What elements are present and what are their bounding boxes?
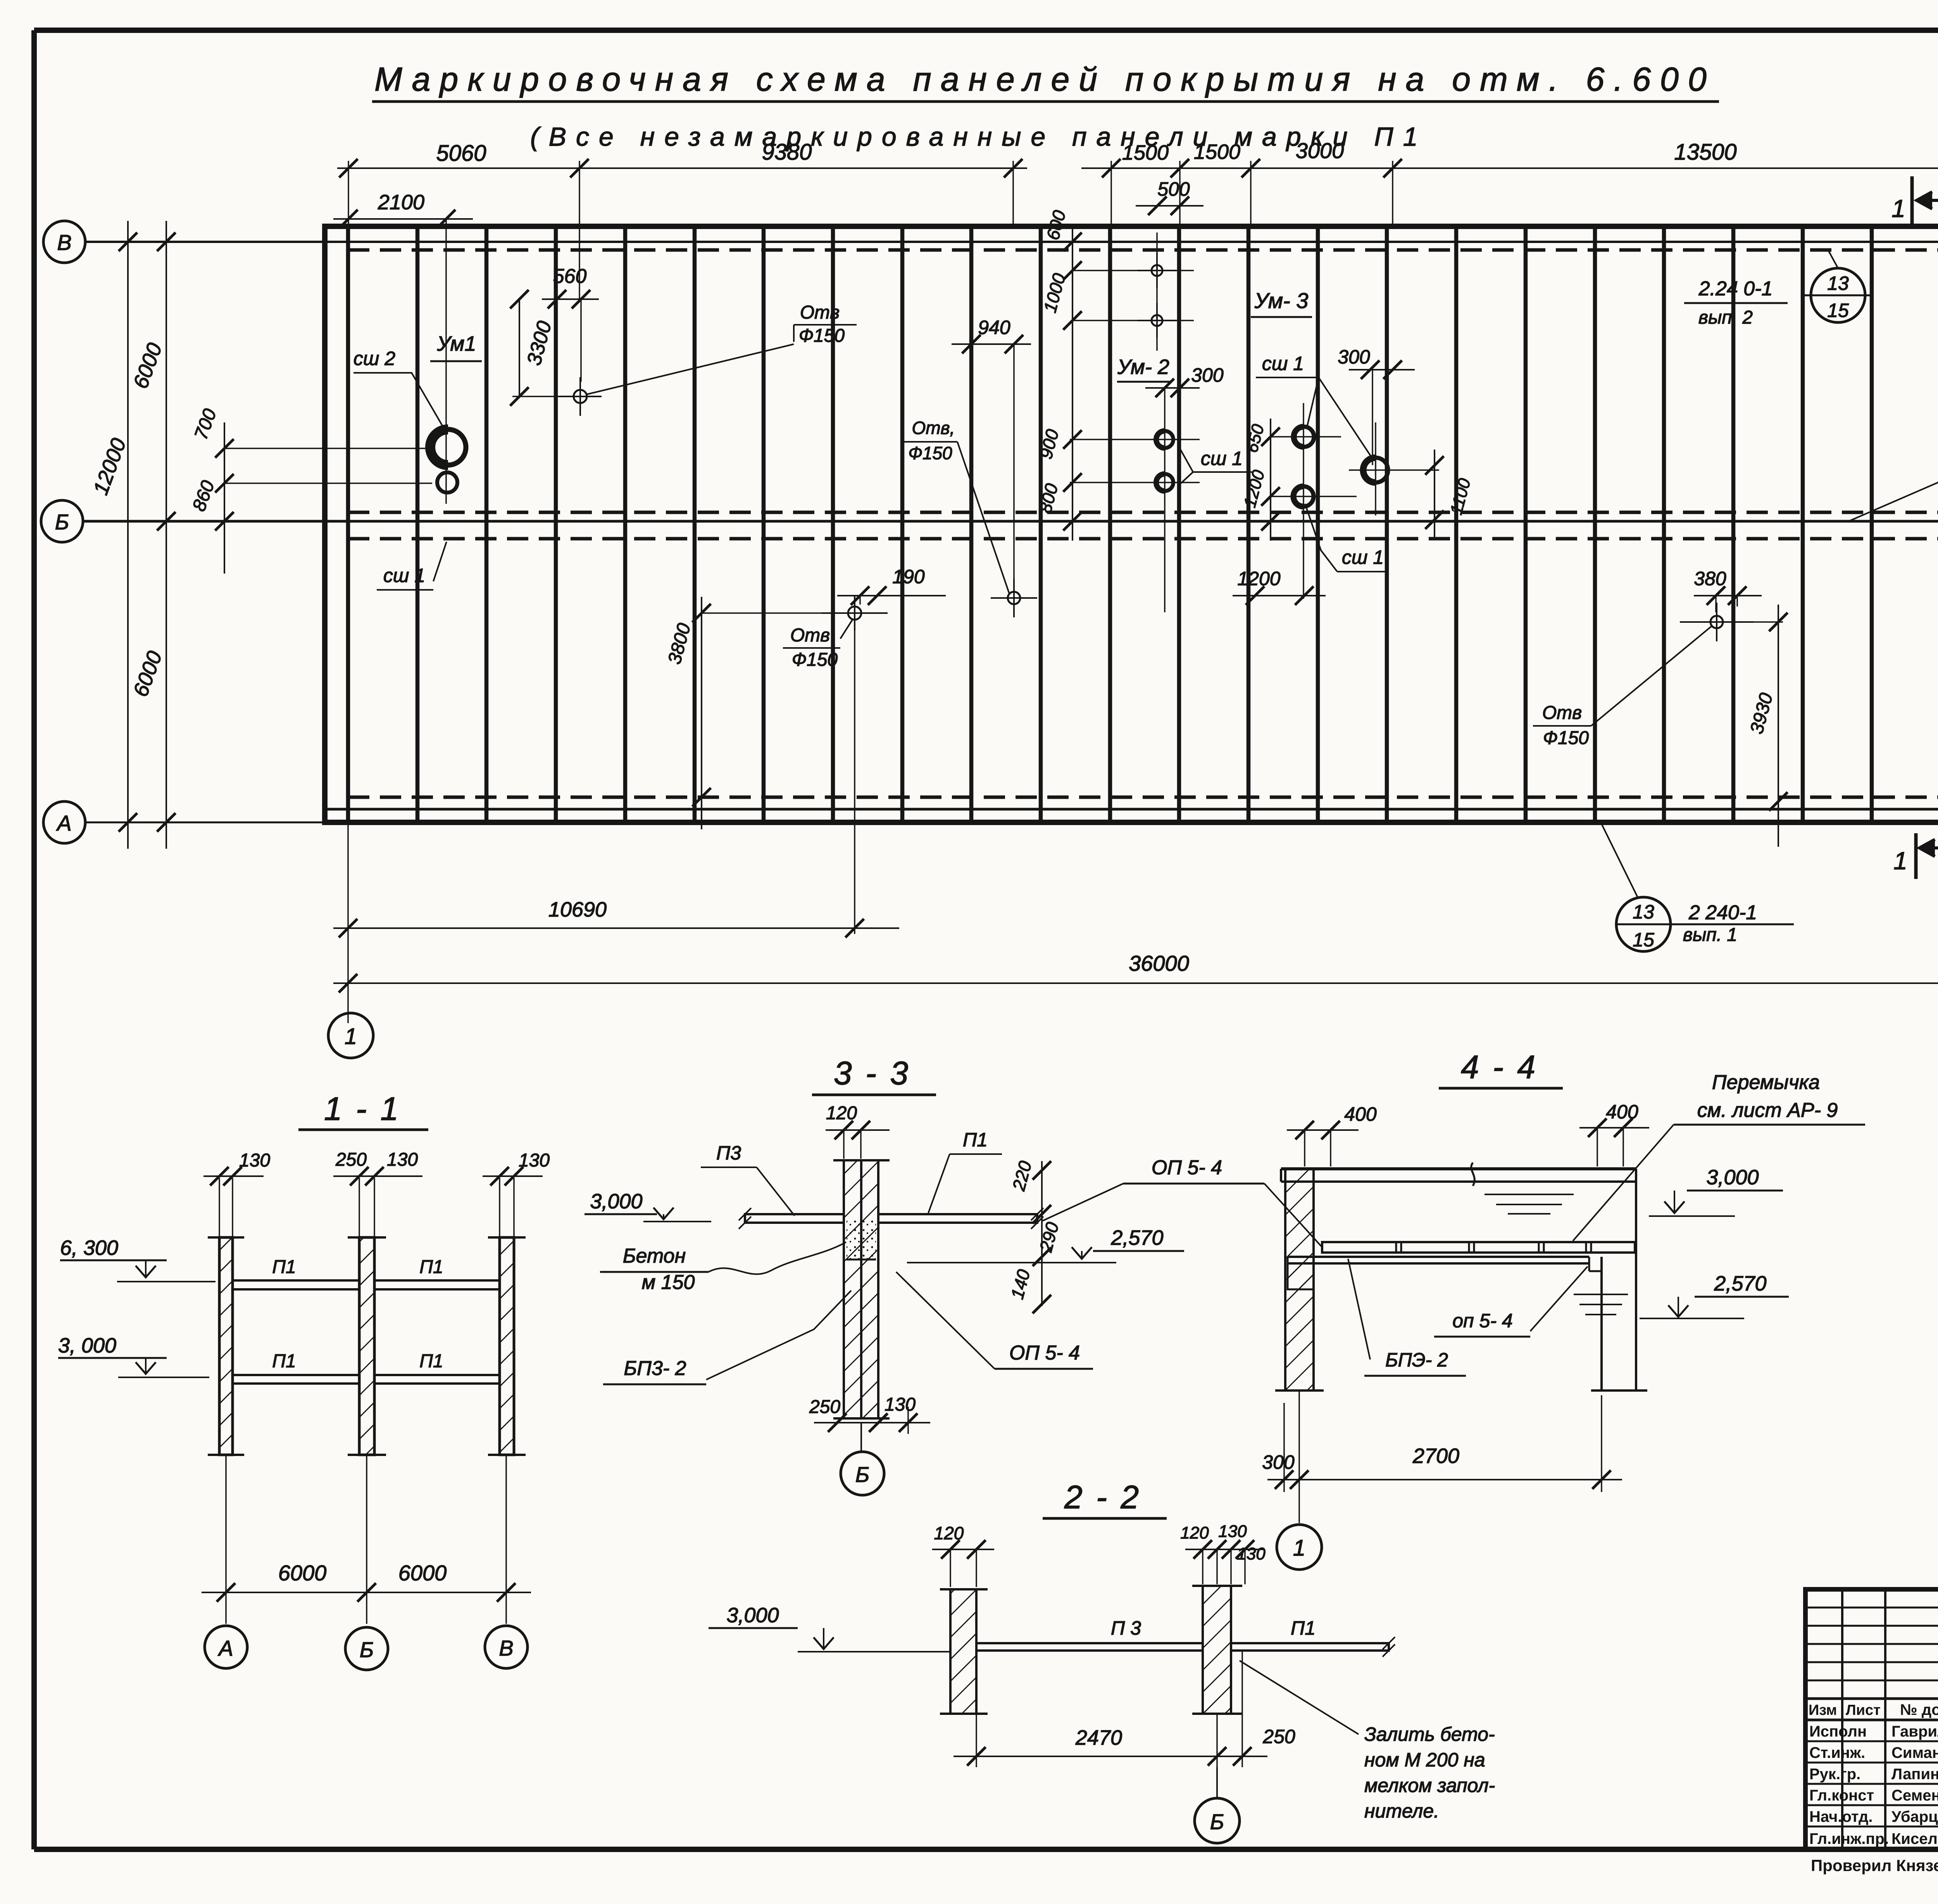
svg-text:БПЭ- 2: БПЭ- 2 — [1385, 1349, 1448, 1371]
dim 3930 vertical — [1778, 605, 1779, 847]
svg-text:400: 400 — [1606, 1101, 1638, 1123]
water lines in right wall — [1574, 1294, 1628, 1295]
section 3-3 dim 120 — [826, 1129, 890, 1131]
section 1-1 wall V hatched — [500, 1237, 514, 1455]
svg-text:1: 1 — [1891, 195, 1905, 222]
dim 190 — [837, 595, 946, 596]
svg-text:Гл.инж.пр.: Гл.инж.пр. — [1809, 1830, 1889, 1847]
svg-text:Ф150: Ф150 — [792, 650, 838, 670]
svg-text:6, 300: 6, 300 — [60, 1236, 118, 1260]
svg-text:(Все незамаркированные панел: (Все незамаркированные панели марки П1 — [530, 122, 1428, 152]
svg-text:130: 130 — [1237, 1544, 1266, 1563]
section 3-3 bottom dims 250/130 — [814, 1422, 930, 1423]
dim 10690 below plan — [347, 822, 349, 1023]
svg-text:2,570: 2,570 — [1714, 1272, 1766, 1295]
dim 1200 bottom — [1233, 595, 1326, 596]
svg-text:5060: 5060 — [436, 141, 486, 166]
section 3-3 right slab P1 — [878, 1214, 1037, 1223]
witness through hole — [512, 396, 599, 397]
section 2-2 dim 120 left — [932, 1549, 994, 1550]
svg-text:560: 560 — [553, 265, 587, 288]
svg-text:2,570: 2,570 — [1110, 1226, 1163, 1249]
dim 560 — [542, 298, 599, 300]
svg-text:Семенов: Семенов — [1891, 1787, 1938, 1804]
svg-text:4 - 4: 4 - 4 — [1461, 1049, 1538, 1085]
svg-text:Киселева: Киселева — [1891, 1830, 1938, 1847]
witness for 2100 / centreline Um1 — [445, 219, 447, 504]
svg-text:2100: 2100 — [378, 191, 424, 214]
svg-text:13500: 13500 — [1674, 140, 1736, 165]
section 3-3 wall of axis B hatched — [844, 1160, 861, 1418]
svg-text:Гл.конст: Гл.конст — [1809, 1787, 1874, 1804]
section 1-1 top slabs P1 — [233, 1280, 359, 1289]
svg-text:Б: Б — [1210, 1809, 1224, 1834]
svg-text:Лист: Лист — [1846, 1702, 1881, 1718]
svg-text:250: 250 — [1262, 1726, 1295, 1747]
node circle 13/15 bottom with label 2 240-1 vyp.1 — [1616, 897, 1671, 951]
axis line А horizontal (bottom edge extension) — [86, 822, 325, 824]
svg-text:500: 500 — [1157, 178, 1190, 200]
svg-text:3,000: 3,000 — [1706, 1166, 1759, 1189]
svg-text:П1: П1 — [963, 1129, 988, 1151]
Um-2 cluster: dim chain 600/1000/900/800 — [1072, 229, 1073, 541]
svg-text:1: 1 — [1293, 1535, 1305, 1561]
svg-text:380: 380 — [1694, 568, 1726, 589]
svg-text:130: 130 — [239, 1150, 270, 1171]
svg-text:А: А — [217, 1636, 233, 1660]
dim 36000 below plan — [333, 982, 1938, 984]
svg-text:120: 120 — [1180, 1523, 1209, 1542]
dashed rib line below axis Б — [348, 537, 1938, 541]
sheet frame — [34, 28, 1938, 33]
svg-text:Б: Б — [55, 510, 69, 534]
section 1-1 lower slabs P1 — [233, 1375, 359, 1384]
svg-text:300: 300 — [1191, 364, 1224, 386]
svg-text:П1: П1 — [1291, 1617, 1316, 1639]
water lines in beam right — [1485, 1194, 1574, 1195]
svg-text:Бетон: Бетон — [623, 1245, 686, 1267]
section 1-1 wall dim witnesses and dims 130/250/130 — [219, 1178, 220, 1236]
svg-text:Ум- 3: Ум- 3 — [1254, 288, 1309, 313]
svg-text:1500: 1500 — [1122, 141, 1169, 164]
svg-text:190: 190 — [892, 566, 925, 588]
section 4-4 BPE-2 slab — [1288, 1256, 1589, 1258]
svg-text:3,000: 3,000 — [590, 1190, 642, 1213]
dim 300 of UM-3 — [1349, 369, 1415, 370]
svg-text:П1: П1 — [272, 1257, 296, 1277]
svg-text:6000: 6000 — [278, 1561, 327, 1585]
svg-text:Нач.отд.: Нач.отд. — [1809, 1808, 1872, 1825]
svg-text:120: 120 — [826, 1103, 857, 1123]
svg-text:Симановская: Симановская — [1891, 1744, 1938, 1761]
left op5-4 notch — [1288, 1263, 1314, 1289]
svg-text:120: 120 — [934, 1523, 964, 1543]
svg-text:Отв,: Отв, — [912, 418, 955, 438]
dim 380 — [1694, 595, 1762, 596]
svg-text:Ст.инж.: Ст.инж. — [1809, 1744, 1865, 1761]
svg-text:сш 1: сш 1 — [383, 565, 425, 586]
title block signature-table verticals — [1841, 1589, 1843, 1849]
dim 650/1200 vertical — [1270, 419, 1271, 541]
svg-text:П3: П3 — [716, 1142, 741, 1164]
svg-text:13: 13 — [1827, 272, 1849, 294]
svg-text:1: 1 — [1893, 847, 1907, 875]
left dim line 12000 — [127, 221, 129, 849]
witness line y=1157 to hole — [224, 448, 434, 449]
svg-text:Исполн: Исполн — [1809, 1723, 1867, 1740]
panel joint lines — [346, 226, 350, 822]
section 3-3 left slab P3 — [745, 1214, 844, 1223]
axis circle А — [43, 801, 85, 843]
section 1-1 bottom dims 6000/6000 — [225, 1455, 227, 1624]
svg-text:А: А — [56, 811, 71, 835]
axis circle 1 bottom — [328, 1013, 373, 1058]
dim 3800 vertical — [701, 597, 702, 829]
witness line y=1247 to hole — [224, 482, 432, 484]
svg-text:Ум1: Ум1 — [437, 332, 476, 355]
svg-text:2 - 2: 2 - 2 — [1064, 1479, 1141, 1515]
top dimension chain line (left segment) — [337, 167, 1027, 169]
Um-2 small holes — [1152, 265, 1162, 276]
svg-text:м 150: м 150 — [642, 1271, 695, 1294]
svg-text:13: 13 — [1633, 901, 1654, 923]
right op5-4 step and wall — [1588, 1257, 1590, 1271]
svg-text:6000: 6000 — [398, 1561, 447, 1585]
section 4-4 top beam — [1281, 1167, 1636, 1170]
svg-text:940: 940 — [978, 317, 1010, 338]
dim 300 of UM-2 — [1145, 387, 1200, 389]
axis circles A B V of section 1-1 — [205, 1626, 247, 1668]
section 2-2 right wall hatched — [1203, 1586, 1231, 1714]
section 4-4 plank row — [1322, 1242, 1635, 1253]
dashed rib line bottom — [348, 796, 1938, 799]
svg-text:№ докум.: № докум. — [1900, 1701, 1938, 1718]
axis circle Б — [41, 500, 83, 542]
svg-text:ном М 200 на: ном М 200 на — [1364, 1749, 1485, 1771]
svg-text:Гаврилова: Гаврилова — [1891, 1723, 1938, 1740]
svg-text:Маркировочная схема панелей: Маркировочная схема панелей покрытия на … — [374, 61, 1716, 98]
svg-text:П1: П1 — [419, 1257, 443, 1277]
section 2-2 dims 120/130/130 right — [1185, 1549, 1264, 1550]
hole right with 380 — [1710, 616, 1723, 628]
svg-text:сш 1: сш 1 — [1342, 546, 1384, 568]
svg-text:15: 15 — [1827, 300, 1849, 321]
dim 3300 vertical — [519, 298, 520, 397]
svg-text:ОП 5- 4: ОП 5- 4 — [1152, 1156, 1222, 1179]
svg-text:Ф150: Ф150 — [799, 326, 845, 346]
svg-text:2700: 2700 — [1412, 1444, 1459, 1468]
svg-text:В: В — [499, 1636, 513, 1660]
svg-text:36000: 36000 — [1129, 951, 1189, 975]
title block outer border — [1805, 1589, 1938, 1849]
top dimension chain line (right segment) — [1081, 167, 1938, 169]
dim 1100 vertical — [1434, 450, 1435, 539]
svg-text:П1: П1 — [419, 1351, 443, 1372]
section 1-1 wall A hatched — [219, 1237, 233, 1455]
svg-text:мелком запол-: мелком запол- — [1364, 1775, 1495, 1796]
svg-text:нителе.: нителе. — [1364, 1800, 1439, 1822]
axis line Б horizontal — [83, 520, 1938, 523]
svg-text:Отв: Отв — [1542, 703, 1582, 723]
section 1-1 wall B hatched — [359, 1237, 374, 1455]
svg-text:10690: 10690 — [548, 898, 607, 921]
axis circle 1 of section 4-4 — [1277, 1525, 1322, 1570]
svg-text:Рук.гр.: Рук.гр. — [1809, 1766, 1860, 1783]
svg-text:вып. 2: вып. 2 — [1698, 307, 1753, 328]
svg-text:Лапина: Лапина — [1891, 1766, 1938, 1783]
section 2-2 slab P3 — [976, 1643, 1203, 1651]
svg-text:15: 15 — [1633, 929, 1654, 951]
dims 220/290/140 vertical right of slab — [1041, 1161, 1043, 1306]
inner bottom slab line — [325, 808, 1938, 811]
svg-text:300: 300 — [1262, 1451, 1295, 1473]
witness verticals of top chain — [348, 161, 349, 226]
svg-text:1 - 1: 1 - 1 — [324, 1091, 401, 1127]
svg-text:Убарцев: Убарцев — [1891, 1808, 1938, 1825]
svg-text:1: 1 — [345, 1024, 357, 1049]
svg-text:см. лист АР- 9: см. лист АР- 9 — [1697, 1099, 1838, 1122]
section 4-4 left wall hatched — [1285, 1169, 1314, 1391]
svg-text:1200: 1200 — [1237, 568, 1280, 589]
left dim line 6000/6000 — [166, 221, 167, 849]
svg-text:2470: 2470 — [1075, 1726, 1122, 1749]
dim 500 — [1136, 205, 1203, 207]
svg-text:9380: 9380 — [762, 140, 812, 165]
svg-text:130: 130 — [1218, 1522, 1247, 1541]
svg-text:оп 5- 4: оп 5- 4 — [1452, 1310, 1512, 1332]
svg-text:сш 1: сш 1 — [1262, 353, 1304, 374]
svg-text:3000: 3000 — [1296, 138, 1344, 163]
svg-text:250: 250 — [809, 1397, 840, 1417]
svg-text:Отв: Отв — [800, 302, 840, 323]
axis circle B of section 2-2 — [1216, 1767, 1218, 1797]
axis circle B of section 3-3 — [860, 1423, 862, 1451]
hole with dim 940 — [1008, 592, 1020, 604]
svg-text:250: 250 — [335, 1149, 367, 1170]
svg-text:П 3: П 3 — [1111, 1617, 1141, 1639]
Um-2 csh1 holes — [1156, 431, 1173, 448]
plan outer slab edge — [325, 226, 1938, 822]
dashed rib line above axis Б — [348, 511, 1938, 514]
svg-text:130: 130 — [519, 1150, 550, 1171]
hole bottom middle with 190 — [848, 607, 861, 620]
svg-text:Ум- 2: Ум- 2 — [1117, 355, 1169, 379]
small hole csh1 of Um1 — [437, 472, 457, 493]
left dim line 700/860 — [224, 422, 225, 574]
svg-text:Отв: Отв — [790, 625, 830, 646]
svg-text:В: В — [57, 230, 71, 255]
svg-text:300: 300 — [1338, 346, 1370, 368]
svg-text:Ф150: Ф150 — [908, 443, 952, 463]
svg-text:П1: П1 — [272, 1351, 296, 1372]
svg-text:3, 000: 3, 000 — [58, 1334, 116, 1357]
svg-text:сш 1: сш 1 — [1201, 448, 1243, 469]
section 4-4 bottom dims 300/2700 — [1283, 1403, 1285, 1492]
svg-text:3 - 3: 3 - 3 — [834, 1055, 910, 1091]
svg-text:1500: 1500 — [1194, 140, 1240, 164]
svg-text:400: 400 — [1344, 1103, 1377, 1125]
signature table horizontals — [1805, 1607, 1938, 1609]
UM-3 holes — [1294, 427, 1314, 447]
dim 2100 — [333, 218, 473, 220]
svg-text:2 240-1: 2 240-1 — [1688, 901, 1757, 924]
svg-text:Перемычка: Перемычка — [1712, 1071, 1820, 1094]
svg-text:Проверил Князева: Проверил Князева — [1811, 1856, 1938, 1875]
dashed rib line top — [348, 248, 1938, 252]
svg-text:Б: Б — [360, 1637, 374, 1662]
big hole csh2 of Um1 — [430, 429, 466, 465]
dim 940 — [952, 343, 1031, 345]
section 2-2 left wall hatched — [950, 1589, 976, 1714]
concrete joint stipple — [847, 1217, 876, 1260]
svg-text:130: 130 — [885, 1394, 916, 1415]
svg-text:Б: Б — [855, 1462, 869, 1487]
section 2-2 slab P1 — [1231, 1643, 1389, 1651]
svg-text:3,000: 3,000 — [726, 1604, 779, 1627]
axis circle В — [43, 221, 85, 263]
svg-text:2.24 0-1: 2.24 0-1 — [1698, 277, 1773, 300]
svg-text:вып. 1: вып. 1 — [1683, 925, 1737, 945]
axis line В horizontal — [85, 241, 1938, 243]
svg-text:Изм: Изм — [1809, 1702, 1837, 1718]
section 4-4 dim 400 right — [1579, 1127, 1649, 1129]
hole otv150 top-left — [574, 390, 587, 403]
svg-text:ОП 5- 4: ОП 5- 4 — [1009, 1342, 1080, 1364]
svg-text:Ф150: Ф150 — [1543, 728, 1589, 748]
section 2-2 bottom dims 2470/250 — [976, 1714, 977, 1767]
svg-text:сш 2: сш 2 — [353, 348, 395, 369]
svg-text:130: 130 — [387, 1149, 418, 1170]
section 4-4 dim 400 left — [1287, 1129, 1359, 1131]
svg-text:Залить бето-: Залить бето- — [1364, 1723, 1495, 1745]
svg-text:БП3- 2: БП3- 2 — [624, 1357, 686, 1380]
node circle 13/15 top with label 2.240-1 vyp.2 — [1811, 268, 1865, 322]
